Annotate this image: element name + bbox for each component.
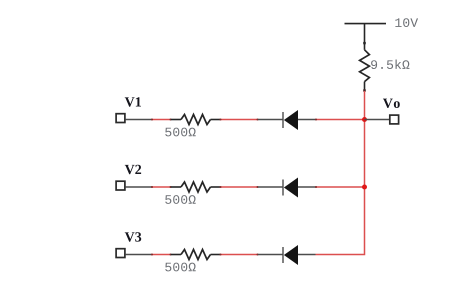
wire: V1 terminal pin	[126, 119, 152, 121]
label R2 value 500Ω	[165, 195, 195, 204]
power rail 10V	[345, 23, 387, 25]
diode D3 (cathode left)	[258, 245, 316, 265]
resistor R1 500Ω	[171, 115, 220, 125]
wire: V2 terminal pin	[126, 186, 152, 188]
label 10V	[395, 18, 418, 27]
label R1 value 500Ω	[165, 128, 195, 137]
label R3 value 500Ω	[165, 263, 195, 272]
wire (red) bus row2 to row3 (with corner)	[316, 187, 365, 255]
wire (red) V3 terminal to R3	[151, 253, 172, 255]
wire: rail to R4 top pin	[363, 24, 366, 50]
junction dot row2	[362, 185, 367, 190]
terminal V2 (input port square)	[116, 181, 125, 190]
node V1 label	[125, 97, 141, 106]
resistor R2 500Ω	[171, 182, 220, 192]
node V3 label	[125, 232, 141, 241]
wire (red) V2 terminal to R2	[151, 186, 172, 188]
terminal V1 (input port square)	[116, 114, 125, 123]
wire (red) R2 to D2	[219, 186, 258, 188]
wire: V3 terminal pin	[126, 254, 152, 256]
resistor R3 500Ω	[171, 250, 220, 260]
label R4 value 9.5kΩ	[371, 59, 409, 69]
wire (red) D2 to output bus	[315, 186, 365, 188]
diode D2 (cathode left)	[258, 178, 316, 198]
wire (red) D1 to output bus	[315, 118, 365, 120]
junction dot at node Vo (row1)	[362, 117, 367, 122]
wire (red) R4 to node Vo	[364, 91, 366, 120]
wire (red) V1 terminal to R1	[151, 118, 172, 120]
terminal Vo (output port square)	[390, 115, 399, 124]
wire (red) bus row1 to row2	[364, 120, 366, 188]
wire (red) R1 to D1	[219, 118, 258, 120]
diode D1 (cathode left)	[258, 110, 316, 130]
wire: node Vo to output terminal	[365, 119, 390, 121]
node Vo label	[383, 99, 400, 108]
resistor R4 9.5kΩ (pull-up)	[360, 50, 370, 92]
terminal V3 (input port square)	[116, 249, 125, 258]
node V2 label	[125, 165, 141, 174]
wire (red) R3 to D3	[219, 253, 258, 255]
